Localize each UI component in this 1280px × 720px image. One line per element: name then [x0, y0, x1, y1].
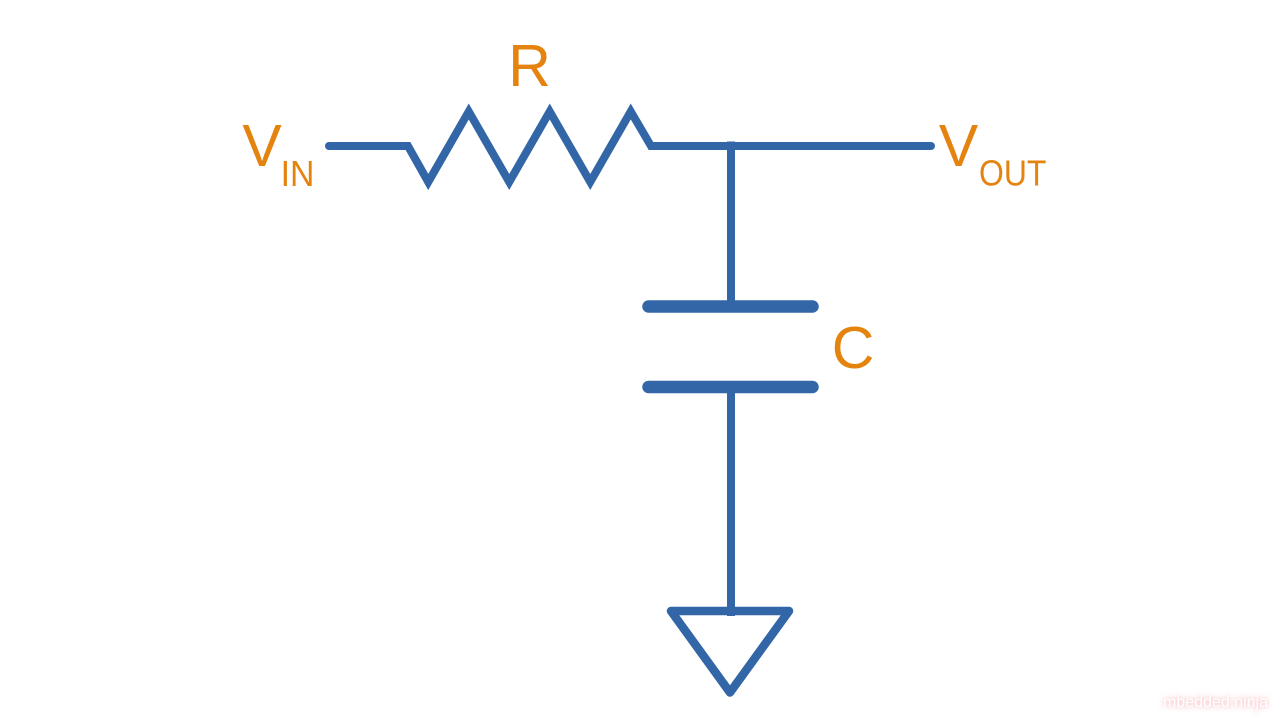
svg-text:C: C — [832, 315, 875, 381]
svg-text:V: V — [242, 113, 282, 179]
svg-text:V: V — [939, 113, 979, 179]
svg-text:OUT: OUT — [979, 153, 1046, 194]
svg-text:IN: IN — [281, 153, 315, 194]
svg-text:R: R — [508, 33, 551, 99]
